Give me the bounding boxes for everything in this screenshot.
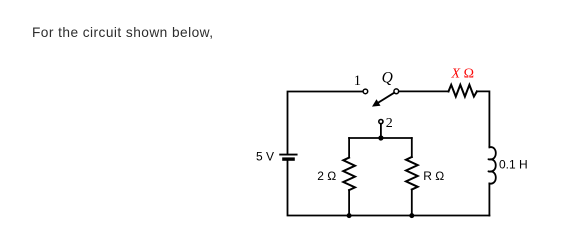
svg-text:2: 2	[386, 116, 393, 131]
svg-text:1: 1	[354, 73, 361, 89]
node 2 terminal circle	[379, 120, 383, 124]
svg-text:Q: Q	[382, 69, 393, 86]
svg-text:2 Ω: 2 Ω	[317, 169, 336, 183]
wire: inductor bottom to bottom-right corner	[488, 184, 490, 216]
battery V1 5V: long plate	[280, 154, 296, 156]
wire: left branch top (bar to 2-ohm resistor)	[348, 138, 350, 158]
switch Q: pole terminal circle	[394, 89, 399, 94]
wire: R resistor to bottom rail	[411, 190, 413, 216]
svg-text:X Ω: X Ω	[451, 67, 474, 82]
caption text	[32, 26, 214, 40]
junction dot bottom-left branch	[347, 213, 352, 218]
inductor L1 0.1H coil	[488, 147, 495, 184]
resistor X zigzag	[449, 85, 477, 97]
wire: battery bottom to bottom-left corner and bottom rail	[288, 161, 490, 216]
wire: top-left + left vertical to battery top	[288, 92, 364, 154]
wire: pole to resistor X	[399, 90, 449, 92]
wire: parallel-top bar	[349, 137, 412, 139]
switch Q: arrowhead	[372, 99, 381, 106]
svg-text:5 V: 5 V	[256, 150, 274, 164]
junction dot at node 2 bar	[378, 135, 383, 140]
battery V1 5V: short thick plate	[284, 157, 293, 160]
wire: node 2 stub down to junction	[380, 124, 382, 138]
svg-text:R Ω: R Ω	[423, 169, 444, 183]
resistor 2-ohm zigzag	[343, 158, 355, 191]
junction dot bottom-right branch	[409, 213, 414, 218]
wire: 2-ohm resistor to bottom rail	[348, 190, 350, 215]
switch Q: terminal 1 circle	[363, 89, 368, 94]
wire: right branch top (bar to R resistor)	[411, 138, 413, 157]
switch Q: arm blade	[378, 93, 395, 103]
svg-text:0.1 H: 0.1 H	[499, 158, 528, 172]
resistor R zigzag	[406, 157, 418, 190]
wire: resistor X to top-right corner, down to inductor	[477, 91, 490, 147]
